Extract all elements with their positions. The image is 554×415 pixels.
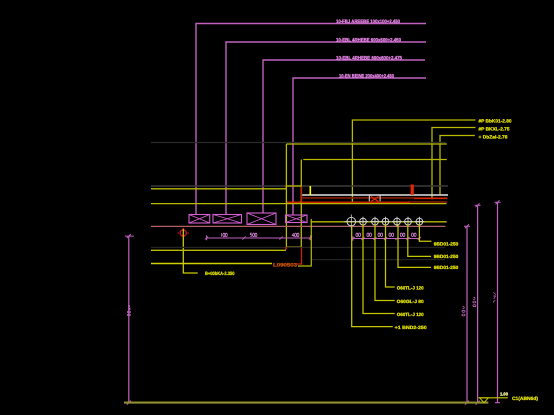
fixture box 4 xyxy=(286,215,308,223)
svg-text:9BD01-250: 9BD01-250 xyxy=(434,265,459,270)
faint ceiling line y142 xyxy=(151,142,446,144)
curtain box inner line y159.5 xyxy=(303,159,447,161)
downlight leader row6 xyxy=(352,226,393,327)
fixture box 2 xyxy=(213,215,242,224)
gypsum joint tick 2 xyxy=(379,195,381,201)
svg-text:O60TL-J 120: O60TL-J 120 xyxy=(397,312,424,317)
leader line label 1 xyxy=(196,24,426,215)
red vertical at x301.6 xyxy=(301,187,303,203)
svg-text:10-FBJ AREEBE 100x100+2.450: 10-FBJ AREEBE 100x100+2.450 xyxy=(336,19,400,25)
dim text 150 xyxy=(222,233,228,237)
left dimension line xyxy=(125,234,134,405)
downlight circles row xyxy=(344,215,424,229)
slab grey line y186 xyxy=(151,185,448,187)
svg-text:10-EBL 4RHEBE 600x600+2.450: 10-EBL 4RHEBE 600x600+2.450 xyxy=(336,38,401,44)
white gypsum line y195 xyxy=(302,194,448,196)
dim text 540 xyxy=(250,233,257,237)
right dimension line B xyxy=(473,203,481,404)
red keel line dark right part xyxy=(410,201,447,203)
yellow leader A xyxy=(352,120,475,203)
floor baseline xyxy=(124,402,488,404)
svg-text:O60GL-J 80: O60GL-J 80 xyxy=(397,299,424,304)
svg-text:10-EBL 4RHEBE 600x600+2.475: 10-EBL 4RHEBE 600x600+2.475 xyxy=(336,56,402,62)
svg-text:O60TL-J 120: O60TL-J 120 xyxy=(397,285,424,290)
dimension chain 1 xyxy=(205,235,312,240)
lamp step leader xyxy=(298,219,311,266)
dark red furring line y197.9 left xyxy=(302,197,414,199)
downlight leader row1 xyxy=(408,224,431,256)
yellow line y203.6 xyxy=(151,203,447,205)
yellow step segment y186 xyxy=(286,185,301,187)
svg-text:1.00: 1.00 xyxy=(500,392,509,397)
bright red furring line y198.3 right xyxy=(414,197,447,199)
right dimension line A xyxy=(462,224,470,404)
red L drop xyxy=(297,247,302,264)
svg-text:#P BbK01-2.80: #P BbK01-2.80 xyxy=(479,119,512,124)
red keel line y202.3 xyxy=(286,201,410,203)
red X joint xyxy=(371,197,379,202)
yellow line y263.5 xyxy=(151,263,272,265)
downlight leader row2 xyxy=(398,224,431,267)
curtain box left vertical x286.4 xyxy=(285,144,287,247)
fixture box 1 xyxy=(189,215,210,224)
dimension chain 2 xyxy=(351,236,421,241)
leader line label 4 xyxy=(293,78,426,215)
lamp row line y221.8 xyxy=(311,221,447,223)
curtain box bottom bar xyxy=(286,246,301,248)
dim text 450 xyxy=(292,233,299,237)
level triangle xyxy=(480,398,489,403)
dim2 60 texts xyxy=(356,233,416,237)
leader line label 3 xyxy=(263,60,425,213)
svg-text:+ DbZai-2.78: + DbZai-2.78 xyxy=(479,135,508,140)
yellow line y188.8 xyxy=(151,188,286,190)
svg-text:#P BKXL-2.75: #P BKXL-2.75 xyxy=(479,127,510,132)
red stub at 286 xyxy=(285,247,287,250)
datum circle with red cross xyxy=(178,228,189,238)
yellow leader B xyxy=(432,128,476,200)
svg-text:C1(ABN6d): C1(ABN6d) xyxy=(512,396,538,402)
right dimension line C xyxy=(493,200,500,402)
curtain box right vertical x301.3 xyxy=(300,160,302,248)
svg-text:B+00bKA-2.350: B+00bKA-2.350 xyxy=(205,271,235,277)
bright yellow tick x310.3 xyxy=(309,186,311,195)
red junction dot xyxy=(285,186,287,188)
svg-text:10-EN BEINE 200x400+2.450: 10-EN BEINE 200x400+2.450 xyxy=(339,74,394,80)
svg-text:L090503: L090503 xyxy=(273,263,297,269)
downlight leader row4 xyxy=(375,224,395,301)
svg-text:+1 BND2-250: +1 BND2-250 xyxy=(395,325,428,330)
rose line y226.4 xyxy=(151,225,445,227)
datum leader xyxy=(183,229,197,273)
downlight leader row5 xyxy=(363,224,395,314)
yellow leader C xyxy=(440,136,475,196)
downlight leader row3 xyxy=(386,224,395,287)
svg-text:9BD01-250: 9BD01-250 xyxy=(434,242,459,247)
gypsum joint tick 1 xyxy=(368,195,370,201)
red hanger rect xyxy=(411,185,414,195)
fixture box 3 xyxy=(247,213,276,225)
downlight leader row0 xyxy=(419,224,431,241)
curtain box top line y144 xyxy=(286,143,446,145)
grey line y247.4 xyxy=(151,246,445,248)
leader line label 2 xyxy=(226,42,426,215)
svg-text:9BD01-250: 9BD01-250 xyxy=(434,254,459,259)
yellow line y250.3 xyxy=(151,249,286,251)
grey line y259.6 xyxy=(312,259,445,261)
level line xyxy=(479,397,508,399)
